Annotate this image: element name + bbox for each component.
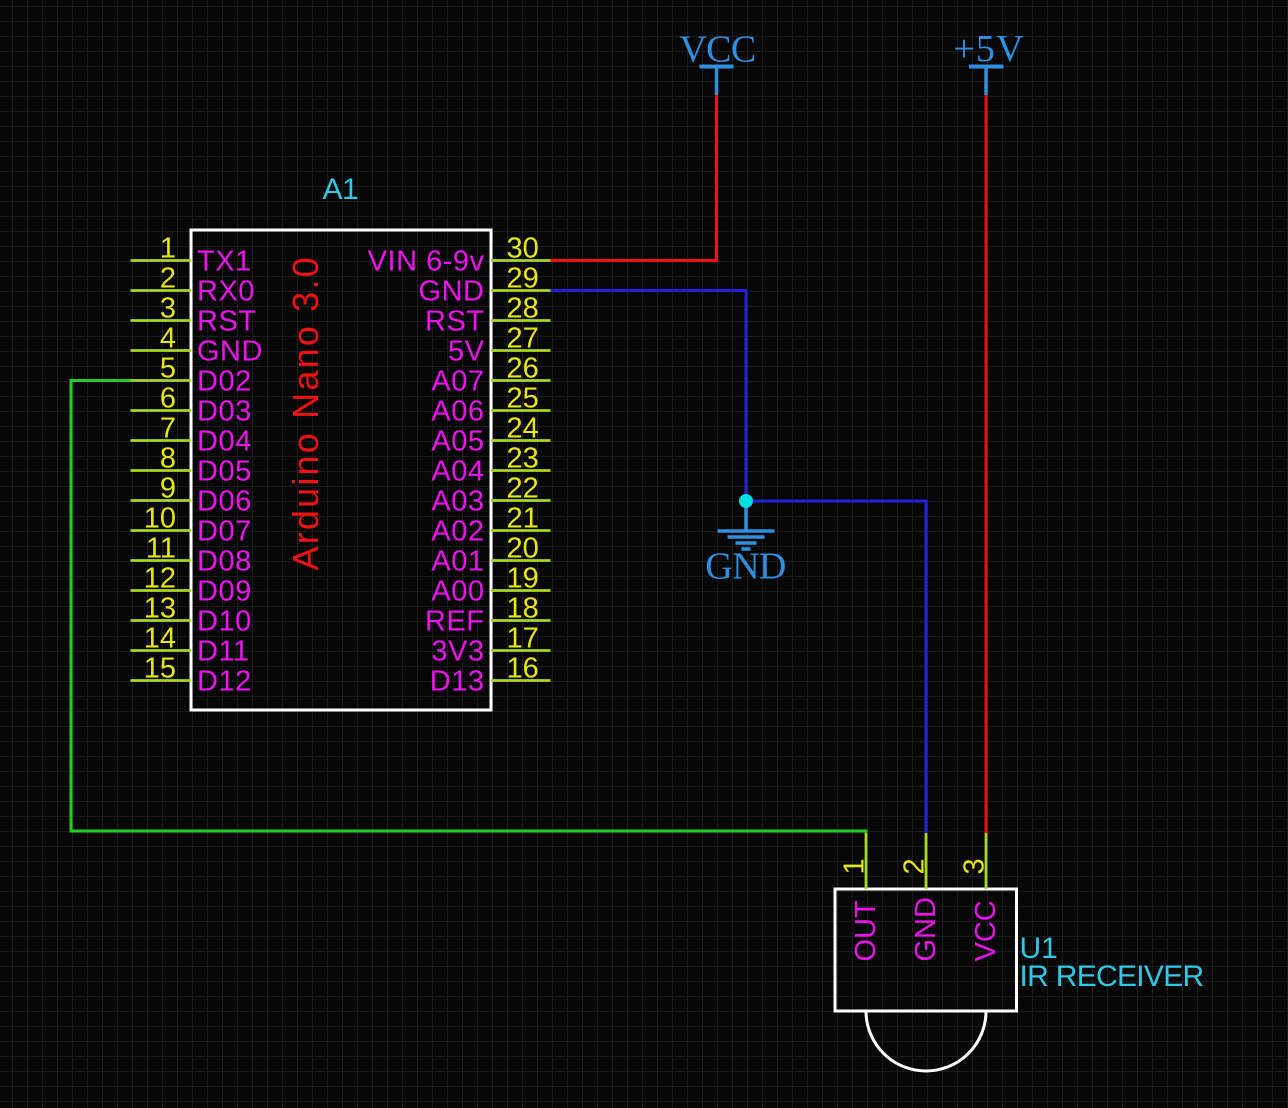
svg-text:A1: A1 bbox=[323, 173, 359, 206]
svg-text:D04: D04 bbox=[197, 426, 252, 458]
A1 pin 15 (D12) bbox=[131, 653, 252, 698]
junction dot bbox=[739, 494, 753, 508]
A1 pin 18 (REF) bbox=[425, 593, 551, 638]
svg-text:VIN 6-9v: VIN 6-9v bbox=[368, 246, 485, 278]
svg-text:13: 13 bbox=[144, 593, 176, 625]
svg-text:D05: D05 bbox=[197, 456, 252, 488]
U1 dome lens arc bbox=[866, 1011, 986, 1071]
svg-text:RST: RST bbox=[425, 306, 485, 338]
svg-text:8: 8 bbox=[160, 443, 176, 475]
A1 pin 1 (TX1) bbox=[131, 233, 252, 278]
A1 pin 30 (VIN 6-9v) bbox=[368, 233, 551, 278]
wire blue: junction to U1 pin2 GND bbox=[746, 501, 926, 833]
svg-text:A03: A03 bbox=[431, 486, 484, 518]
svg-text:A06: A06 bbox=[431, 396, 484, 428]
svg-text:A04: A04 bbox=[431, 456, 484, 488]
wire red: A1 pin30 VIN to VCC bbox=[551, 95, 717, 261]
A1 pin 17 (3V3) bbox=[431, 623, 550, 668]
svg-text:16: 16 bbox=[507, 653, 539, 685]
svg-text:22: 22 bbox=[507, 473, 539, 505]
svg-text:26: 26 bbox=[507, 353, 539, 385]
svg-text:D07: D07 bbox=[197, 516, 252, 548]
svg-text:3: 3 bbox=[160, 293, 176, 325]
svg-text:12: 12 bbox=[144, 563, 176, 595]
svg-text:D06: D06 bbox=[197, 486, 252, 518]
svg-text:GND: GND bbox=[910, 897, 942, 961]
U1 pin 1 (OUT) bbox=[839, 833, 883, 962]
svg-text:D08: D08 bbox=[197, 546, 252, 578]
svg-text:10: 10 bbox=[144, 503, 176, 535]
wire blue: A1 pin29 GND to junction bbox=[551, 291, 747, 502]
A1 pin 14 (D11) bbox=[131, 623, 250, 668]
svg-text:2: 2 bbox=[160, 263, 176, 295]
A1 pin 6 (D03) bbox=[131, 383, 252, 428]
power symbol +5V bbox=[953, 28, 1024, 95]
wire green: A1 pin5 D02 to U1 pin1 OUT bbox=[71, 381, 866, 834]
svg-text:A05: A05 bbox=[431, 426, 484, 458]
A1 pin 7 (D04) bbox=[131, 413, 252, 458]
A1 pin 27 (5V) bbox=[448, 323, 550, 368]
A1 pin 8 (D05) bbox=[131, 443, 252, 488]
svg-text:D10: D10 bbox=[197, 606, 252, 638]
svg-text:9: 9 bbox=[160, 473, 176, 505]
power symbol VCC bbox=[679, 29, 755, 96]
svg-text:A00: A00 bbox=[431, 576, 484, 608]
svg-text:GND: GND bbox=[705, 546, 786, 588]
component U1 IR RECEIVER box bbox=[835, 889, 1017, 1011]
svg-text:RST: RST bbox=[197, 306, 257, 338]
svg-text:6: 6 bbox=[160, 383, 176, 415]
A1 pin 2 (RX0) bbox=[131, 263, 255, 308]
A1 pin 28 (RST) bbox=[425, 293, 551, 338]
component A1 Arduino Nano 3.0 box bbox=[191, 230, 491, 710]
svg-text:29: 29 bbox=[507, 263, 539, 295]
svg-text:15: 15 bbox=[144, 653, 176, 685]
A1 pin 20 (A01) bbox=[431, 533, 550, 578]
A1 pin 3 (RST) bbox=[131, 293, 257, 338]
svg-text:30: 30 bbox=[507, 233, 539, 265]
svg-text:14: 14 bbox=[144, 623, 176, 655]
A1 pin 23 (A04) bbox=[431, 443, 550, 488]
svg-text:23: 23 bbox=[507, 443, 539, 475]
svg-text:IR RECEIVER: IR RECEIVER bbox=[1020, 960, 1204, 993]
svg-text:5V: 5V bbox=[448, 336, 485, 368]
svg-text:27: 27 bbox=[507, 323, 539, 355]
A1 pin 24 (A05) bbox=[431, 413, 550, 458]
svg-text:D12: D12 bbox=[197, 666, 252, 698]
svg-text:3: 3 bbox=[959, 858, 991, 874]
A1 pin 16 (D13) bbox=[430, 653, 551, 698]
A1 pin 25 (A06) bbox=[431, 383, 550, 428]
svg-text:21: 21 bbox=[507, 503, 539, 535]
svg-text:19: 19 bbox=[507, 563, 539, 595]
svg-text:D11: D11 bbox=[197, 636, 250, 668]
svg-text:11: 11 bbox=[146, 533, 176, 565]
U1 pin 2 (GND) bbox=[899, 833, 943, 962]
svg-text:28: 28 bbox=[507, 293, 539, 325]
svg-text:D03: D03 bbox=[197, 396, 252, 428]
A1 pin 19 (A00) bbox=[431, 563, 550, 608]
svg-text:2: 2 bbox=[899, 858, 931, 874]
svg-text:18: 18 bbox=[507, 593, 539, 625]
svg-text:D13: D13 bbox=[430, 666, 485, 698]
svg-text:4: 4 bbox=[160, 323, 176, 355]
U1 pin 3 (VCC) bbox=[959, 833, 1003, 962]
svg-text:1: 1 bbox=[160, 233, 176, 265]
svg-text:5: 5 bbox=[160, 353, 176, 385]
svg-text:Arduino Nano 3.0: Arduino Nano 3.0 bbox=[285, 255, 326, 570]
A1 pin 22 (A03) bbox=[431, 473, 550, 518]
svg-text:1: 1 bbox=[839, 858, 871, 874]
svg-text:3V3: 3V3 bbox=[431, 636, 484, 668]
svg-text:A01: A01 bbox=[431, 546, 484, 578]
svg-text:24: 24 bbox=[507, 413, 539, 445]
svg-text:D09: D09 bbox=[197, 576, 252, 608]
svg-text:+5V: +5V bbox=[953, 28, 1024, 70]
svg-text:TX1: TX1 bbox=[197, 246, 252, 278]
A1 pin 13 (D10) bbox=[131, 593, 252, 638]
svg-text:RX0: RX0 bbox=[197, 276, 255, 308]
svg-text:D02: D02 bbox=[197, 366, 252, 398]
svg-text:17: 17 bbox=[507, 623, 539, 655]
svg-text:VCC: VCC bbox=[679, 29, 755, 71]
A1 pin 9 (D06) bbox=[131, 473, 252, 518]
A1 pin 21 (A02) bbox=[431, 503, 550, 548]
svg-text:A02: A02 bbox=[431, 516, 484, 548]
svg-text:20: 20 bbox=[507, 533, 539, 565]
ground symbol GND bbox=[705, 501, 786, 588]
A1 pin 10 (D07) bbox=[131, 503, 252, 548]
svg-text:GND: GND bbox=[419, 276, 485, 308]
svg-text:GND: GND bbox=[197, 336, 263, 368]
A1 pin 5 (D02) bbox=[131, 353, 252, 398]
wire red: +5V to U1 pin3 VCC bbox=[985, 95, 988, 833]
A1 pin 26 (A07) bbox=[431, 353, 550, 398]
svg-text:OUT: OUT bbox=[850, 900, 882, 962]
svg-text:REF: REF bbox=[425, 606, 485, 638]
svg-text:A07: A07 bbox=[431, 366, 484, 398]
A1 pin 4 (GND) bbox=[131, 323, 263, 368]
A1 pin 12 (D09) bbox=[131, 563, 252, 608]
A1 pin 29 (GND) bbox=[419, 263, 551, 308]
svg-text:VCC: VCC bbox=[970, 900, 1002, 961]
A1 pin 11 (D08) bbox=[131, 533, 252, 578]
svg-text:25: 25 bbox=[507, 383, 539, 415]
svg-text:7: 7 bbox=[160, 413, 176, 445]
